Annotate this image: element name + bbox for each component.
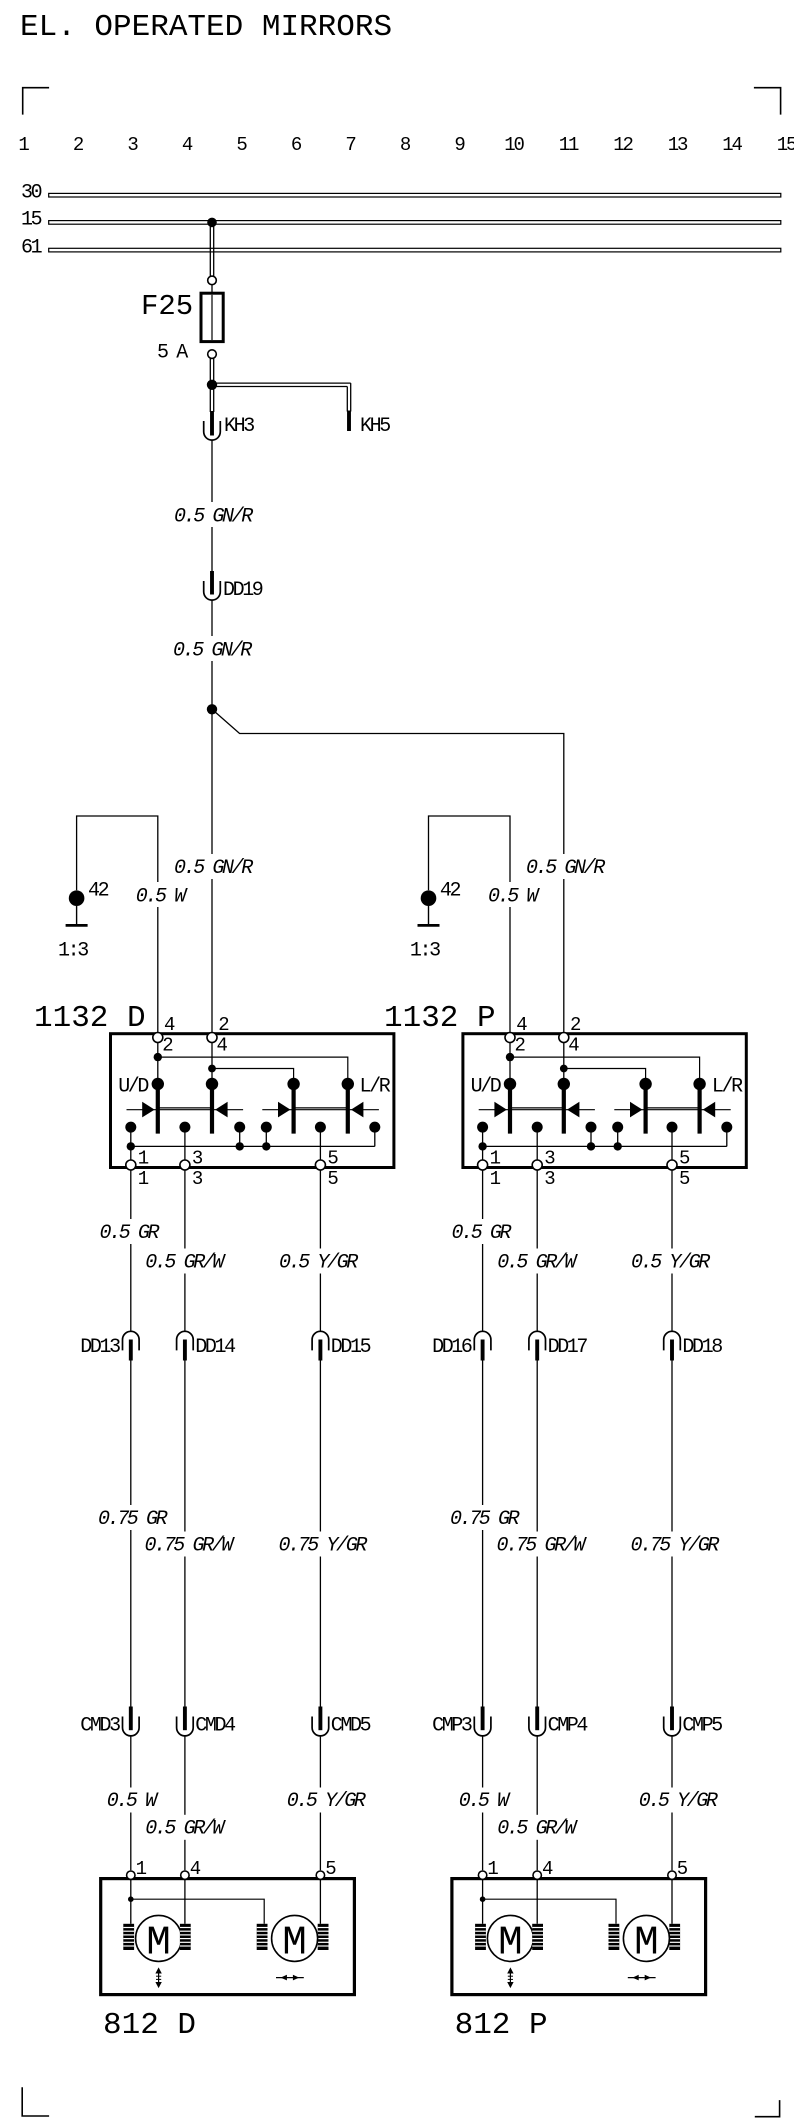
svg-text:0.5 Y/GR: 0.5 Y/GR [279,1252,358,1275]
connector CMP5 [664,1707,723,1738]
svg-text:0.5 Y/GR: 0.5 Y/GR [287,1790,366,1813]
field coil [475,1924,486,1950]
bus 61 [21,236,781,259]
junction node [207,704,217,714]
wire to KH5 [212,383,351,411]
wire [482,1127,484,1161]
field coil [257,1924,268,1950]
junction [614,1142,622,1150]
svg-text:1:3: 1:3 [410,939,440,962]
pin 1 [478,1858,498,1880]
field coil [180,1924,191,1950]
wire 0.75 GR/W [494,1361,587,1707]
wire [671,1127,673,1161]
contact [179,1122,190,1133]
junction [478,1142,486,1150]
pin 2 [559,1014,581,1057]
svg-text:14: 14 [722,134,742,156]
contact [667,1122,678,1133]
pin 1 [478,1148,501,1191]
svg-text:M: M [498,1920,523,1966]
contact [721,1122,732,1133]
contact [261,1122,272,1133]
svg-text:DD13: DD13 [80,1336,120,1359]
wire [210,358,213,384]
connector CMD4 [177,1707,236,1738]
wire [590,1127,592,1146]
svg-text:0.75 Y/GR: 0.75 Y/GR [631,1534,720,1557]
wire 0.75 GR/W [142,1361,235,1707]
wire 0.75 GR [96,1361,168,1707]
wire [157,1057,159,1080]
svg-text:10: 10 [504,134,524,156]
wire [211,1069,213,1081]
terminal [208,276,217,285]
connector CMD3 [80,1707,139,1738]
svg-text:11: 11 [559,134,579,156]
svg-text:1132 P: 1132 P [384,1001,496,1036]
left/right arrow [628,1975,656,1981]
pin 2 [207,1014,229,1057]
svg-text:0.75 GR: 0.75 GR [450,1508,520,1531]
pin 4 [505,1014,527,1057]
connector DD18 [664,1331,723,1360]
svg-text:12: 12 [613,134,633,156]
svg-text:DD15: DD15 [331,1336,371,1359]
junction [262,1142,270,1150]
svg-text:F25: F25 [141,290,193,323]
svg-text:0.5 GN/R: 0.5 GN/R [173,639,252,662]
wire [510,1057,700,1080]
svg-text:30: 30 [21,182,42,205]
svg-text:0.75 GR/W: 0.75 GR/W [497,1534,588,1557]
svg-text:0.5 GR/W: 0.5 GR/W [497,1817,578,1840]
contact bar [287,1078,299,1134]
pin 3 [532,1148,555,1191]
label 0.5 W [486,882,540,908]
wire 0.5 GN/R [169,600,255,709]
wire [184,1880,186,1924]
svg-text:0.5 GR/W: 0.5 GR/W [145,1252,226,1275]
svg-text:61: 61 [21,236,43,259]
wire [536,1127,538,1161]
wire [509,1057,511,1080]
fuse F25 5A [141,290,223,365]
pin 1 [126,1148,149,1191]
connector DD17 [529,1331,588,1360]
contact bar [152,1078,164,1134]
wire 0.75 Y/GR [276,1361,368,1707]
wire [212,1069,294,1081]
wire [184,1127,186,1161]
connector DD13 [80,1331,139,1360]
wire [564,1069,646,1081]
wire [726,1127,728,1146]
contact [234,1122,245,1133]
svg-text:0.5 W: 0.5 W [107,1790,159,1813]
wire [210,385,213,412]
label 0.5 GN/R [524,854,608,880]
connector CMP4 [529,1707,588,1738]
wire 0.5 W [457,1736,513,1870]
wire [265,1127,267,1146]
connector CMP3 [432,1707,491,1738]
wire 0.75 GR [448,1361,520,1707]
contact [125,1122,136,1133]
connector KH3 [204,411,255,440]
wire [617,1127,619,1146]
motor M left/right [623,1915,669,1966]
svg-text:M: M [282,1920,307,1966]
wire 0.5 GR/W [143,1736,226,1870]
wire [211,285,213,294]
svg-text:812 D: 812 D [103,2008,196,2043]
wire 0.5 Y/GR [285,1736,367,1870]
wire [509,1042,511,1057]
wire 0.5 Y/GR [629,1170,711,1331]
wire [130,1127,132,1161]
label 0.5 W [134,882,188,908]
pin 5 [667,1148,690,1191]
wire 0.5 GN/R to 1132 D pin 2 [170,709,254,1033]
field coil [609,1924,620,1950]
wire [483,1899,616,1924]
wire branch to 1132 P [212,709,564,1033]
svg-text:0.5 GR: 0.5 GR [452,1222,512,1245]
contact [612,1122,623,1133]
connector DD16 [432,1331,491,1360]
pin 5 [315,1148,338,1191]
svg-text:DD19: DD19 [223,579,263,602]
wire 0.75 Y/GR [628,1361,720,1707]
wire [563,1069,565,1081]
wire ground branch P [429,816,511,1033]
wire [239,1127,241,1146]
svg-text:DD14: DD14 [195,1336,235,1359]
pin 5 [668,1858,688,1880]
pin 4 [533,1858,553,1880]
contact bar [504,1078,516,1134]
svg-text:812 P: 812 P [455,2008,548,2043]
up/down arrow [155,1967,161,1988]
svg-text:15: 15 [21,209,42,232]
connector DD19 [204,571,263,602]
wire 0.5 GR/W [495,1170,578,1331]
svg-text:7: 7 [345,134,355,156]
connector KH5 [349,411,390,439]
contact [532,1122,543,1133]
junction [128,1896,134,1902]
svg-text:U/D: U/D [118,1075,148,1098]
wire 0.5 GR/W [495,1736,578,1870]
svg-text:CMD5: CMD5 [331,1714,371,1737]
svg-text:1:3: 1:3 [58,939,88,962]
svg-text:U/D: U/D [471,1075,501,1098]
svg-text:0.5 GN/R: 0.5 GN/R [526,857,605,880]
wire [319,1880,321,1924]
svg-text:42: 42 [440,880,461,903]
svg-text:EL. OPERATED MIRRORS: EL. OPERATED MIRRORS [20,10,392,45]
svg-text:CMP3: CMP3 [432,1714,472,1737]
svg-text:0.5 Y/GR: 0.5 Y/GR [631,1252,710,1275]
mirror motor assembly 812 P box [452,1879,706,1995]
svg-text:15: 15 [777,134,794,156]
wire 0.5 W [105,1736,161,1870]
svg-text:0.75 Y/GR: 0.75 Y/GR [279,1534,368,1557]
pin 3 [180,1148,203,1191]
actuator [262,1102,379,1118]
field coil [532,1924,543,1950]
svg-text:L/R: L/R [712,1075,743,1098]
svg-text:CMD3: CMD3 [80,1714,120,1737]
svg-text:0.5 Y/GR: 0.5 Y/GR [639,1790,718,1813]
motor M left/right [272,1915,318,1966]
wire common [483,1145,727,1147]
mirror motor assembly 812 D box [101,1879,355,1995]
field coil [123,1924,134,1950]
wire [211,1042,213,1066]
left/right arrow [276,1975,304,1981]
actuator [614,1102,730,1118]
junction [207,380,217,390]
svg-text:DD16: DD16 [432,1336,472,1359]
pin 4 [153,1014,175,1057]
connector DD14 [177,1331,236,1360]
wire [536,1880,538,1924]
wire [130,1880,132,1924]
svg-text:0.5 W: 0.5 W [459,1790,511,1813]
actuator [127,1102,244,1118]
contact [477,1122,488,1133]
svg-text:0.5 GR: 0.5 GR [100,1222,160,1245]
svg-text:0.5 GR/W: 0.5 GR/W [145,1817,226,1840]
svg-text:DD17: DD17 [548,1336,588,1359]
pin 5 [316,1858,336,1880]
switch 1132 P box [463,1034,746,1168]
motor M up/down [487,1915,533,1966]
bus 15 [21,209,781,232]
svg-text:1132 D: 1132 D [34,1001,146,1036]
ground 42 1:3 [58,880,109,963]
svg-text:CMD4: CMD4 [195,1714,235,1737]
connector DD15 [312,1331,371,1360]
connector CMD5 [312,1707,371,1738]
wire ground branch D [77,816,158,1033]
contact bar [558,1078,570,1134]
contact bar [693,1078,705,1134]
wire [671,1880,673,1924]
svg-text:KH5: KH5 [360,415,390,438]
up/down arrow [507,1967,513,1988]
svg-text:0.5 W: 0.5 W [136,885,188,908]
wire [158,1057,348,1080]
wire [319,1127,321,1161]
svg-text:0.5 GN/R: 0.5 GN/R [174,505,253,528]
svg-text:42: 42 [88,880,109,903]
svg-text:0.5 W: 0.5 W [488,885,540,908]
junction [560,1065,568,1073]
svg-text:0.5 GN/R: 0.5 GN/R [174,857,253,880]
svg-text:M: M [146,1920,171,1966]
wire [482,1880,484,1924]
contact [586,1122,597,1133]
junction [587,1142,595,1150]
svg-text:L/R: L/R [360,1075,391,1098]
field coil [318,1924,329,1950]
terminal [208,350,217,359]
wire [210,222,213,276]
svg-text:5 A: 5 A [157,342,188,365]
contact bar [342,1078,354,1134]
ground 42 1:3 [410,880,461,963]
svg-text:0.75 GR/W: 0.75 GR/W [145,1534,236,1557]
svg-text:KH3: KH3 [224,415,254,438]
wire common [131,1145,375,1147]
pin 1 [127,1858,147,1880]
junction [236,1142,244,1150]
junction [127,1142,135,1150]
svg-text:M: M [634,1920,659,1966]
svg-text:0.5 GR/W: 0.5 GR/W [497,1252,578,1275]
svg-text:0.75 GR: 0.75 GR [98,1508,168,1531]
pin 4 [181,1858,201,1880]
wire [157,1042,159,1057]
svg-text:DD18: DD18 [682,1336,722,1359]
switch 1132 D box [111,1034,394,1168]
wire 0.5 Y/GR [277,1170,359,1331]
wire 0.5 GR [97,1170,163,1331]
contact [369,1122,380,1133]
junction [154,1053,162,1061]
bus 30 [21,182,781,205]
wire [131,1899,264,1924]
junction on bus 15 [207,218,217,228]
svg-text:CMP4: CMP4 [548,1714,588,1737]
contact bar [206,1078,218,1134]
junction [208,1065,216,1073]
motor M up/down [136,1915,182,1966]
actuator [479,1102,595,1118]
wire 0.5 GN/R [170,440,254,571]
svg-text:CMP5: CMP5 [682,1714,722,1737]
svg-text:13: 13 [668,134,688,156]
wire 0.5 GR/W [143,1170,226,1331]
wire [374,1127,376,1146]
wire 0.5 GR [449,1170,515,1331]
contact [315,1122,326,1133]
junction [480,1896,486,1902]
field coil [669,1924,680,1950]
junction [506,1053,514,1061]
wire 0.5 Y/GR [637,1736,719,1870]
wire [563,1042,565,1066]
contact bar [639,1078,651,1134]
